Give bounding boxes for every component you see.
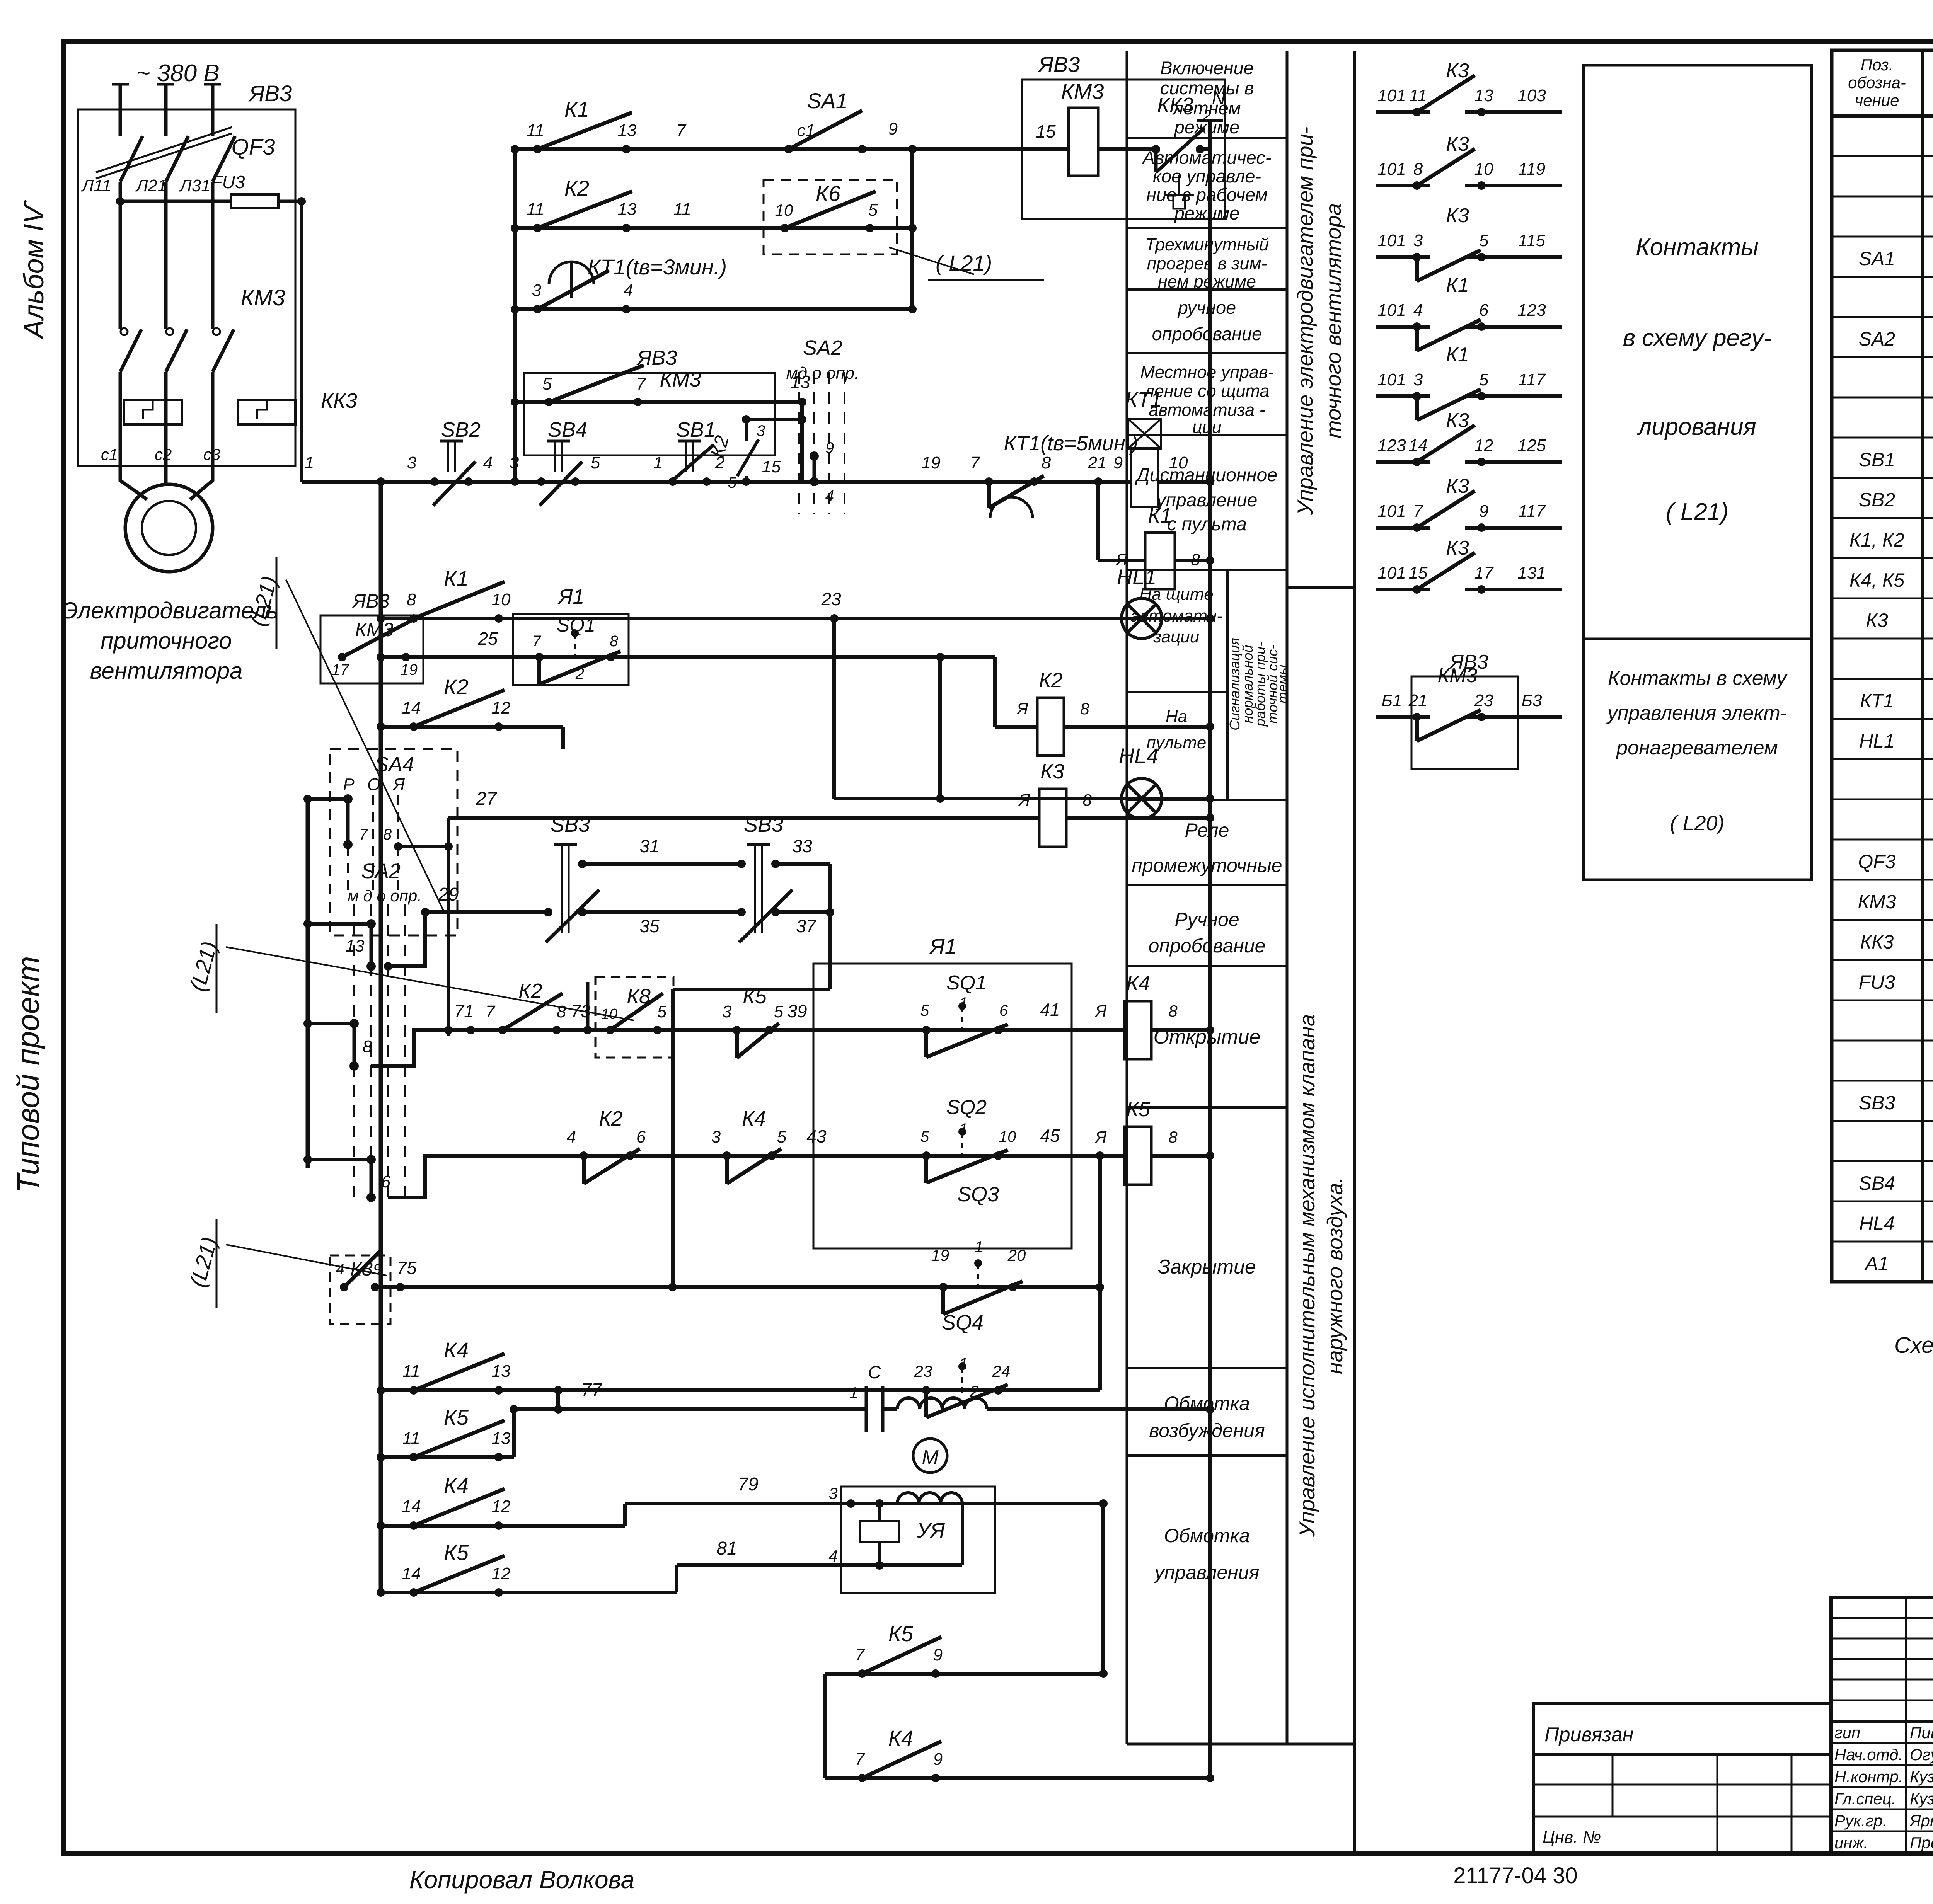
contact K4 14-12 (409, 1521, 418, 1530)
svg-text:Закрытие: Закрытие (1158, 1256, 1256, 1278)
svg-text:5: 5 (657, 1002, 667, 1021)
motor M circle (125, 484, 213, 572)
wire busA to SA2-8 (308, 1022, 354, 1025)
svg-text:К5: К5 (888, 1621, 914, 1646)
svg-text:3: 3 (532, 281, 542, 300)
QF3 trip bar (96, 133, 232, 179)
svg-text:( L21): ( L21) (1666, 499, 1728, 525)
contact K4 break r14 (723, 1151, 731, 1160)
svg-text:Обмотка: Обмотка (1164, 1525, 1250, 1546)
svg-text:К1: К1 (564, 97, 589, 121)
breaker QF3 pole 1 (120, 136, 143, 182)
svg-text:SQ3: SQ3 (957, 1183, 999, 1206)
svg-text:101: 101 (1377, 370, 1406, 389)
svg-text:41: 41 (1040, 1000, 1060, 1020)
svg-text:5: 5 (542, 375, 552, 393)
svg-text:ление со щита: ление со щита (1143, 381, 1269, 401)
coil KM3 (1069, 108, 1098, 176)
wire ua drop left2 (878, 1542, 881, 1565)
privyazan rows (1533, 1784, 1831, 1786)
svg-text:5: 5 (774, 1002, 784, 1021)
table row line 3 (1832, 236, 1933, 238)
svg-text:К2: К2 (599, 1107, 623, 1130)
wire rung3 (515, 307, 912, 311)
svg-text:7: 7 (636, 375, 646, 393)
svg-text:лирования: лирования (1637, 414, 1756, 440)
wire ua bottom (677, 1563, 962, 1567)
svg-text:1: 1 (959, 1121, 968, 1138)
svg-text:К2: К2 (444, 674, 469, 699)
box YaV3 (KM3 aux) (524, 373, 775, 455)
svg-text:7: 7 (532, 633, 542, 650)
wire 37 (776, 910, 830, 914)
table row line 18 (1832, 839, 1933, 841)
wire vert SA4 feed (561, 727, 565, 749)
svg-text:4: 4 (624, 281, 633, 300)
svg-text:1: 1 (959, 995, 968, 1012)
coil K3 (1039, 789, 1066, 847)
svg-text:КМ3: КМ3 (1061, 79, 1104, 104)
svg-text:8: 8 (1168, 1128, 1178, 1146)
contact SA2 6 (366, 1155, 376, 1164)
svg-text:2: 2 (575, 665, 584, 682)
node 75 (396, 1283, 404, 1291)
svg-text:QF3: QF3 (232, 135, 275, 160)
table row line 10 (1832, 517, 1933, 519)
svg-text:43: 43 (806, 1126, 827, 1146)
svg-text:5: 5 (868, 201, 878, 220)
node rung1-vert (908, 145, 917, 153)
svg-text:15: 15 (762, 457, 781, 476)
svg-text:SА2: SА2 (803, 336, 842, 359)
tb sig row 2 (1831, 1764, 1933, 1766)
svg-text:15: 15 (1036, 121, 1056, 141)
phase wire L1 middle (119, 182, 122, 329)
svg-text:темы: темы (1275, 665, 1290, 704)
svg-text:О: О (367, 775, 380, 794)
phase wire L3 upper (211, 84, 215, 136)
svg-text:12: 12 (1474, 436, 1493, 455)
svg-text:управления: управления (1154, 1562, 1260, 1583)
svg-text:К3: К3 (1446, 409, 1469, 432)
svg-text:опробование: опробование (1152, 324, 1262, 344)
box K6 dashed (764, 180, 897, 254)
column line left (1126, 51, 1128, 1744)
svg-text:КТ1(tв=3мин.): КТ1(tв=3мин.) (588, 255, 727, 279)
svg-text:7: 7 (1413, 502, 1423, 521)
contact row 8 (1376, 588, 1430, 591)
svg-text:3: 3 (711, 1127, 721, 1146)
svg-text:101: 101 (1377, 160, 1406, 179)
svg-text:9: 9 (933, 1750, 943, 1769)
tb vert 1 (1905, 1597, 1907, 1853)
privyazan cols (1612, 1754, 1614, 1817)
table row line 17 (1832, 799, 1933, 800)
svg-text:SА4: SА4 (375, 753, 414, 776)
wire fuse drop vertical (300, 201, 303, 482)
wire motor b (164, 466, 168, 484)
wire K1 coil rung (1098, 559, 1145, 562)
svg-text:123: 123 (1377, 436, 1406, 455)
svg-text:4: 4 (483, 453, 493, 472)
svg-text:7: 7 (677, 121, 687, 140)
svg-text:12: 12 (492, 698, 511, 717)
contact K4 11-13 (409, 1386, 418, 1395)
wire K5 coil to bus (1151, 1154, 1210, 1158)
svg-text:SQ2: SQ2 (946, 1096, 987, 1119)
node bus main top (377, 477, 385, 486)
wire K1 coil to bus (1175, 559, 1210, 562)
wire rung9 (834, 797, 1210, 800)
svg-text:SQ4: SQ4 (942, 1311, 984, 1334)
svg-text:29: 29 (438, 884, 459, 905)
wire 79 (625, 1502, 1103, 1505)
svg-text:пульте: пульте (1147, 733, 1207, 752)
rotated col upper bottom (1287, 586, 1355, 589)
svg-text:5: 5 (1479, 370, 1489, 389)
tb thin row 2 (1831, 1658, 1933, 1660)
wire ua drop left (878, 1504, 881, 1521)
contact row 4 (1376, 325, 1430, 329)
contact K2 break r14 (580, 1151, 588, 1160)
tb thin row 1 (1831, 1638, 1933, 1640)
svg-text:3: 3 (828, 1484, 837, 1502)
contact KT1 5min break (985, 477, 993, 486)
svg-text:11: 11 (527, 200, 544, 219)
contact row 2 (1376, 184, 1430, 187)
svg-text:101: 101 (1377, 564, 1406, 582)
svg-text:На щите: На щите (1139, 585, 1214, 604)
svg-text:SВ1: SВ1 (676, 418, 716, 441)
svg-text:Л11: Л11 (81, 176, 111, 195)
svg-text:7: 7 (970, 453, 980, 472)
wire rung17 (381, 1455, 514, 1459)
contact SA2 8 (349, 1019, 359, 1028)
wire rung14 (448, 1154, 1125, 1158)
svg-text:К1, К2: К1, К2 (1849, 529, 1905, 551)
svg-text:SВ3: SВ3 (744, 813, 783, 836)
privyazan row1 (1533, 1753, 1831, 1756)
svg-text:45: 45 (1040, 1126, 1060, 1146)
svg-text:131: 131 (1517, 564, 1546, 582)
svg-text:11: 11 (673, 200, 691, 219)
table row line 15 (1832, 718, 1933, 720)
switch SA2 dashed columns (798, 372, 800, 514)
wire vert 2135 (823, 1674, 827, 1778)
wire rung29 left (425, 910, 548, 914)
svg-text:13: 13 (618, 121, 637, 140)
svg-text:77: 77 (581, 1380, 603, 1400)
contact SQ1 r13 (922, 1026, 931, 1034)
svg-text:режиме: режиме (1174, 117, 1240, 137)
svg-text:8: 8 (407, 590, 416, 609)
wire vert 33-37 join (828, 864, 832, 989)
pointer c (226, 1245, 387, 1276)
pushbutton SB3 upper (561, 845, 563, 933)
svg-text:Контакты в схему: Контакты в схему (1608, 667, 1788, 690)
wire rung12 (448, 816, 1039, 820)
svg-text:117: 117 (1518, 370, 1546, 389)
svg-text:1: 1 (653, 453, 663, 472)
wire vert 2845 (1098, 1156, 1102, 1390)
svg-text:9: 9 (1479, 502, 1488, 521)
svg-text:4: 4 (828, 1547, 837, 1565)
wire KK3 to N (1200, 147, 1210, 151)
node subbus join (511, 477, 519, 486)
wire K2 coil to bus (1064, 725, 1210, 729)
wire vert 23-HL4 (832, 618, 836, 799)
svg-text:SQ1: SQ1 (946, 972, 987, 994)
wire rungC right (987, 1407, 1210, 1411)
table row line 16 (1832, 758, 1933, 760)
column bottom (1127, 1743, 1355, 1746)
svg-text:HL4: HL4 (1859, 1213, 1895, 1234)
column line right (1286, 51, 1289, 1744)
svg-text:Включение: Включение (1160, 58, 1254, 78)
contact SA2 pos (810, 451, 819, 461)
tb sig row 4 (1831, 1809, 1933, 1810)
svg-text:Я: Я (1095, 1002, 1107, 1020)
contact K2 r13 (498, 1026, 507, 1034)
svg-text:8: 8 (610, 633, 619, 650)
phase wire L1 lower (119, 372, 122, 466)
svg-text:Гл.спец.: Гл.спец. (1834, 1790, 1896, 1808)
svg-text:Рук.гр.: Рук.гр. (1834, 1812, 1887, 1830)
svg-text:КТ1(tв=5мин.): КТ1(tв=5мин.) (1004, 432, 1138, 455)
svg-text:101: 101 (1377, 502, 1406, 521)
fuse FU3 (231, 194, 278, 208)
svg-text:39: 39 (787, 1001, 807, 1021)
svg-text:Ручное: Ручное (1174, 909, 1239, 930)
wire rung21 (825, 1776, 1210, 1780)
svg-text:7: 7 (359, 826, 368, 843)
svg-text:Типовой проект: Типовой проект (11, 956, 45, 1193)
svg-text:К6: К6 (816, 181, 841, 206)
wire rung2 (515, 226, 912, 230)
table row line 14 (1832, 678, 1933, 680)
node K1coil feed (1094, 477, 1103, 486)
table header bottom (1832, 114, 1933, 118)
svg-text:Управление исполнительным ме: Управление исполнительным механизмом кла… (1295, 1014, 1319, 1537)
enclosure box YaV3 (KM3 coil) (1022, 80, 1225, 219)
table col 1 (1921, 50, 1924, 1282)
svg-text:14: 14 (1409, 436, 1428, 455)
contact row 5 (1376, 394, 1430, 398)
node ua3 (847, 1499, 855, 1508)
contact K2 (11-13) (533, 224, 542, 232)
svg-text:SА1: SА1 (807, 89, 848, 113)
column subcol line (1226, 570, 1229, 800)
svg-text:мд о опр.: мд о опр. (786, 364, 859, 383)
wire K3 coil to bus (1066, 816, 1210, 820)
wire SA2-8 out (371, 1030, 448, 1066)
svg-text:Я1: Я1 (929, 934, 956, 959)
svg-text:КК3: КК3 (1860, 931, 1894, 953)
wire 31 (582, 862, 740, 866)
wire vert r18 up (623, 1504, 627, 1526)
svg-text:~ 380 В: ~ 380 В (136, 60, 219, 87)
node k5 vert (1096, 1151, 1104, 1160)
lamp HL4 (1122, 778, 1162, 819)
table row line 12 (1832, 598, 1933, 599)
svg-text:К3: К3 (1446, 133, 1469, 155)
svg-text:К1: К1 (1446, 274, 1469, 296)
wire vert K2coil feed (993, 657, 997, 727)
wire rung5 (302, 480, 1131, 484)
svg-text:7: 7 (486, 1002, 496, 1021)
svg-text:Открытие: Открытие (1154, 1026, 1261, 1048)
svg-text:( L20): ( L20) (1670, 812, 1724, 835)
svg-text:возбуждения: возбуждения (1149, 1420, 1265, 1441)
svg-text:Огурцов: Огурцов (1910, 1746, 1933, 1764)
wire K2 coil rung (995, 725, 1037, 729)
node 23 (830, 614, 839, 623)
contact K1 (11-13) (533, 145, 542, 153)
svg-text:ЯВ3: ЯВ3 (351, 590, 389, 612)
svg-text:5: 5 (591, 453, 600, 472)
svg-text:Л31: Л31 (179, 176, 210, 195)
coil K2 (1037, 698, 1064, 756)
svg-text:5: 5 (920, 1128, 929, 1145)
contact SA4 P (343, 794, 353, 804)
svg-text:27: 27 (476, 789, 498, 809)
svg-text:SВ2: SВ2 (441, 418, 481, 441)
table row line 28 (1832, 1241, 1933, 1243)
svg-text:4: 4 (567, 1127, 576, 1146)
svg-text:6: 6 (381, 1172, 391, 1191)
svg-text:21177-04 30: 21177-04 30 (1453, 1863, 1577, 1888)
svg-text:6: 6 (1479, 301, 1489, 320)
svg-text:с2: с2 (155, 445, 172, 463)
pushbutton SB3 second (754, 845, 756, 933)
svg-text:SА1: SА1 (1859, 248, 1895, 269)
switch SA4 columns (347, 795, 349, 893)
svg-text:Проимкина: Проимкина (1910, 1834, 1933, 1852)
pointer b (226, 947, 634, 1020)
svg-text:Привязан: Привязан (1544, 1723, 1633, 1746)
column row line 1 (1127, 227, 1287, 229)
bus left sub (top rungs) (513, 149, 517, 482)
contact SQ3 (939, 1283, 948, 1291)
table row line 2 (1832, 196, 1933, 198)
box K8 dashed r13 (595, 977, 673, 1058)
svg-text:К5: К5 (1126, 1098, 1151, 1121)
svg-text:К5: К5 (444, 1405, 469, 1429)
svg-text:8: 8 (1413, 160, 1423, 179)
contact K6 (10-5) (781, 224, 789, 232)
wire rung20 (825, 1672, 1103, 1676)
wire SA2-13 out (388, 912, 425, 966)
svg-text:2: 2 (969, 1382, 978, 1400)
wire KT1 to bus (1158, 480, 1210, 484)
table row line 20 (1832, 919, 1933, 921)
box YaV3 contact (1411, 676, 1518, 769)
contactor KM3 pole 2 (166, 329, 187, 372)
svg-text:1: 1 (974, 1238, 983, 1256)
svg-text:опробование: опробование (1149, 935, 1266, 957)
svg-text:3: 3 (1413, 231, 1423, 250)
svg-text:К2: К2 (564, 176, 589, 200)
column row line 2 (1127, 288, 1287, 291)
tb thin row 0 (1831, 1617, 1933, 1619)
wire fuse to drop (278, 200, 302, 203)
svg-text:81: 81 (716, 1538, 737, 1559)
box K8 dashed #2 (330, 1255, 390, 1324)
svg-text:На: На (1166, 707, 1187, 726)
table row line 13 (1832, 638, 1933, 640)
svg-text:КК3: КК3 (321, 389, 357, 412)
svg-text:ции: ции (1192, 417, 1222, 437)
svg-text:8: 8 (1080, 700, 1089, 718)
contact SQ1 7-8 (535, 653, 544, 661)
svg-text:М: М (922, 1446, 939, 1469)
table row line 25 (1832, 1120, 1933, 1122)
svg-text:17: 17 (332, 661, 349, 678)
wire rung8 (381, 655, 995, 659)
svg-text:14: 14 (402, 1564, 421, 1583)
svg-text:SА2: SА2 (361, 860, 401, 883)
svg-text:75: 75 (397, 1258, 417, 1278)
svg-text:19: 19 (401, 661, 418, 678)
phase wire L2 lower (164, 372, 168, 466)
svg-text:летнем: летнем (1172, 98, 1241, 118)
svg-text:24: 24 (992, 1362, 1011, 1380)
svg-text:Альбом IѴ: Альбом IѴ (19, 200, 49, 340)
svg-text:К1: К1 (444, 566, 469, 591)
bus right N (1208, 121, 1212, 1778)
phase wire L3 lower (211, 372, 215, 466)
svg-text:FU3: FU3 (211, 172, 245, 192)
svg-text:125: 125 (1517, 436, 1546, 455)
svg-text:1: 1 (305, 453, 314, 472)
svg-text:режиме: режиме (1174, 203, 1240, 223)
svg-text:8: 8 (1082, 791, 1092, 809)
svg-text:6: 6 (636, 1127, 646, 1146)
wire rung4 (515, 400, 802, 404)
svg-text:КМ3: КМ3 (1438, 664, 1478, 687)
terminal N (1197, 119, 1223, 122)
table outer (1832, 50, 1933, 1282)
svg-text:ронагревателем: ронагревателем (1616, 737, 1778, 759)
svg-text:33: 33 (792, 836, 812, 856)
table row line 24 (1832, 1080, 1933, 1082)
svg-text:К3: К3 (1446, 537, 1469, 559)
column row line 3 (1127, 352, 1287, 354)
svg-text:автомати-: автомати- (1130, 606, 1222, 625)
contact SQ2 r14 (922, 1151, 931, 1160)
table row line 1 (1832, 155, 1933, 157)
svg-text:К3: К3 (1446, 475, 1469, 497)
svg-text:обозна-: обозна- (1848, 73, 1906, 92)
wire stub 73 (586, 982, 590, 1030)
svg-text:К4: К4 (888, 1726, 913, 1750)
svg-text:зации: зации (1153, 627, 1200, 646)
breaker QF3 pole 2 (166, 136, 188, 182)
svg-text:11: 11 (402, 1429, 420, 1448)
inductor winding (897, 1398, 987, 1409)
tb sig row 3 (1831, 1786, 1933, 1788)
svg-text:КМ3: КМ3 (355, 619, 394, 640)
wire vert r1r2r3 (910, 149, 914, 309)
svg-text:5: 5 (1479, 231, 1489, 250)
svg-text:14: 14 (402, 1497, 421, 1516)
svg-text:101: 101 (1377, 86, 1406, 105)
svg-text:SВ3: SВ3 (551, 813, 590, 836)
contact row 9 (1376, 715, 1430, 719)
svg-text:А1: А1 (1864, 1253, 1889, 1274)
svg-text:К4: К4 (444, 1473, 469, 1497)
box kontakty (1584, 65, 1812, 880)
